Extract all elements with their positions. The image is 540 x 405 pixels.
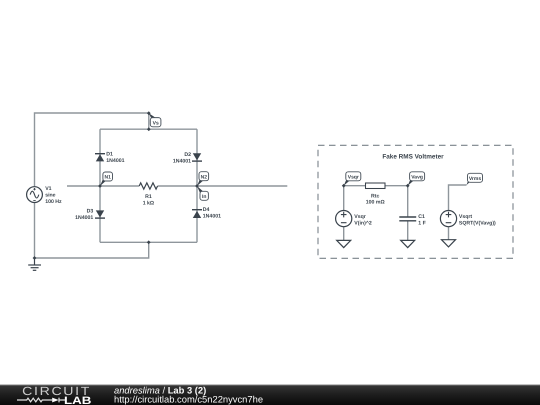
- svg-text:Vavg: Vavg: [411, 174, 423, 180]
- svg-text:D2: D2: [184, 152, 191, 158]
- svg-text:http://circuitlab.com/c5n22nyv: http://circuitlab.com/c5n22nyvcn7he: [114, 393, 263, 404]
- svg-text:R1: R1: [145, 194, 152, 200]
- svg-text:Vrms: Vrms: [469, 176, 481, 182]
- svg-text:D4: D4: [203, 207, 210, 213]
- svg-text:1N4001: 1N4001: [75, 215, 93, 221]
- svg-text:In: In: [202, 194, 206, 200]
- svg-text:N1: N1: [104, 175, 111, 181]
- svg-text:1 kΩ: 1 kΩ: [143, 201, 154, 207]
- svg-text:100 mΩ: 100 mΩ: [366, 200, 385, 206]
- svg-text:LAB: LAB: [64, 395, 92, 405]
- svg-text:1N4001: 1N4001: [173, 158, 191, 164]
- svg-text:D1: D1: [106, 152, 113, 158]
- svg-text:Vsqr: Vsqr: [348, 174, 359, 180]
- svg-text:V(in)^2: V(in)^2: [354, 221, 372, 227]
- svg-text:Fake RMS Voltmeter: Fake RMS Voltmeter: [382, 153, 444, 160]
- svg-text:Vsqr: Vsqr: [354, 214, 366, 220]
- svg-text:1 F: 1 F: [418, 221, 426, 227]
- svg-text:N2: N2: [201, 174, 208, 180]
- svg-text:Vsqrt: Vsqrt: [459, 214, 473, 220]
- svg-text:1N4001: 1N4001: [203, 213, 221, 219]
- svg-text:C1: C1: [418, 214, 425, 220]
- svg-text:100 Hz: 100 Hz: [45, 199, 62, 205]
- svg-text:V1: V1: [45, 186, 51, 192]
- svg-text:Vs: Vs: [153, 120, 159, 126]
- svg-text:D3: D3: [87, 208, 94, 214]
- svg-text:1N4001: 1N4001: [106, 158, 124, 164]
- svg-text:sine: sine: [45, 192, 55, 198]
- svg-text:SQRT(V(Vavg)): SQRT(V(Vavg)): [459, 221, 496, 227]
